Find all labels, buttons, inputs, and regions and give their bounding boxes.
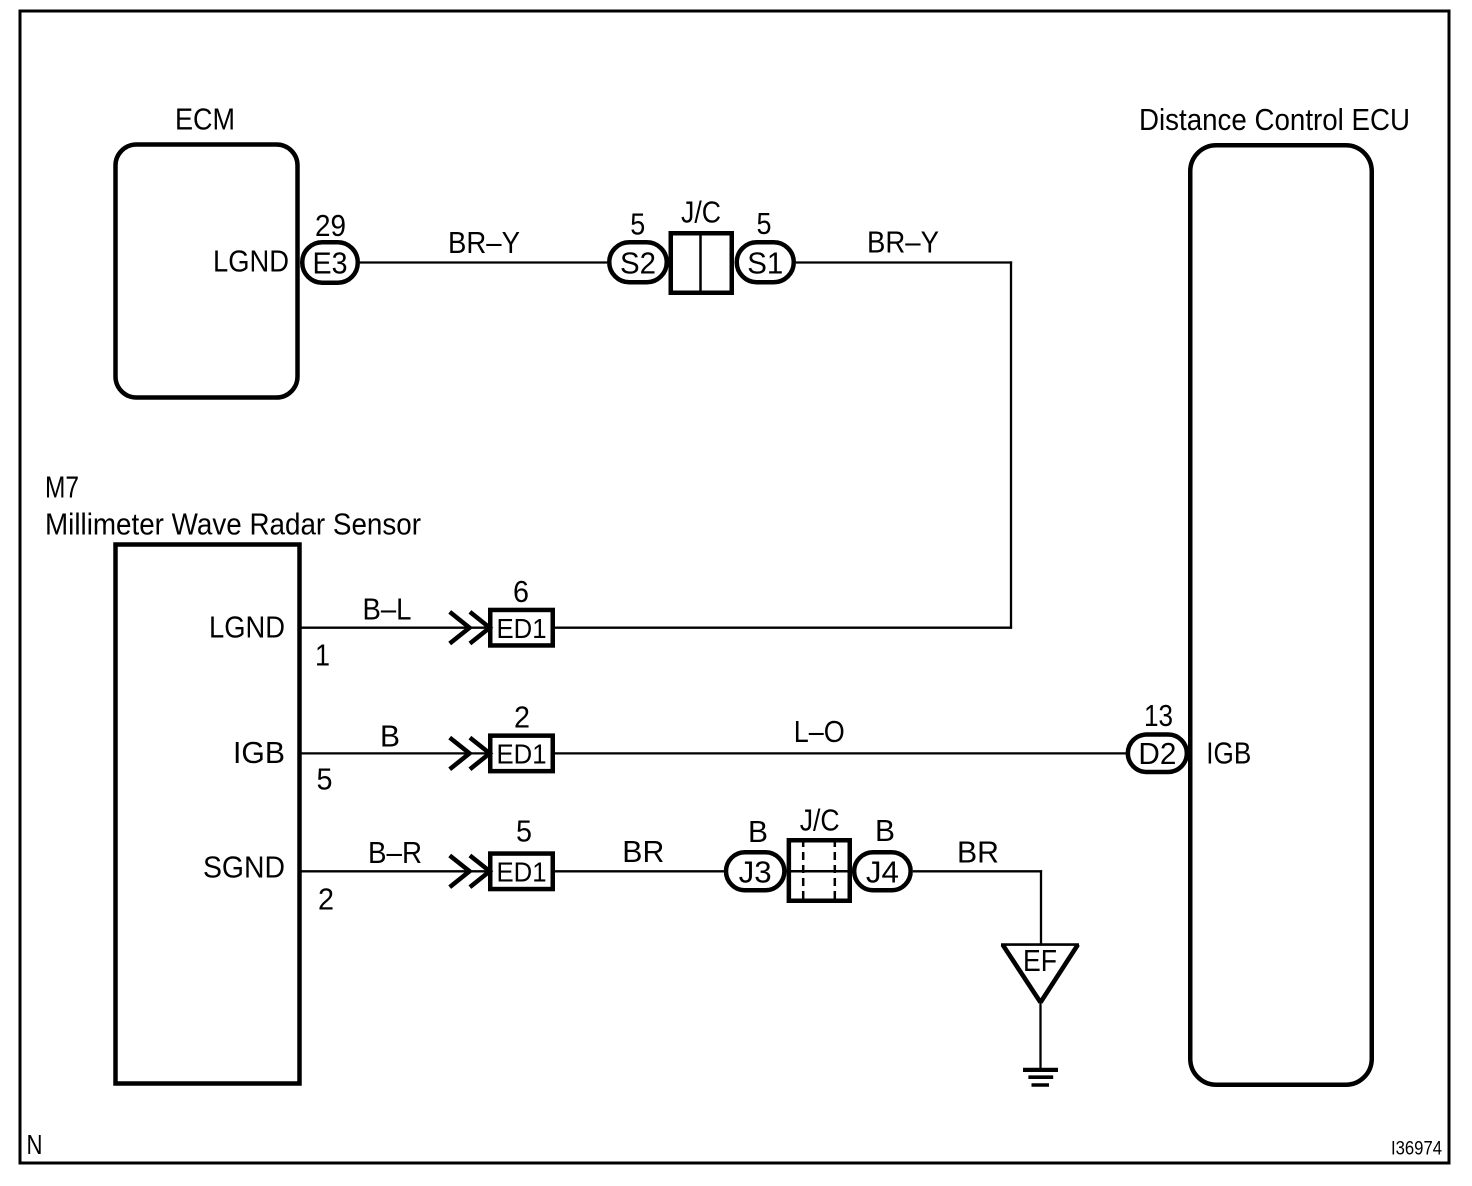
shield ground triangle EF — [1001, 943, 1079, 946]
svg-text:BR: BR — [957, 835, 999, 870]
shield arrows row3 — [450, 856, 470, 888]
ground symbol — [1023, 1068, 1058, 1072]
svg-text:J/C: J/C — [800, 803, 840, 838]
shield arrows row1 — [450, 612, 470, 644]
shield arrows row2 — [450, 738, 470, 770]
svg-text:ED1: ED1 — [497, 856, 547, 887]
svg-text:Distance Control ECU: Distance Control ECU — [1139, 102, 1410, 137]
wire ED1 row3 to J3 — [555, 870, 725, 872]
wire ED1 row1 to vertical — [555, 627, 1012, 629]
svg-text:B–R: B–R — [368, 835, 422, 870]
connector J4 — [854, 852, 911, 890]
J/C row3 dashed bar right — [834, 839, 837, 902]
svg-text:ED1: ED1 — [497, 739, 547, 770]
svg-text:BR–Y: BR–Y — [448, 225, 520, 260]
svg-text:D2: D2 — [1138, 736, 1176, 771]
connector D2 — [1128, 735, 1187, 772]
svg-text:EF: EF — [1023, 943, 1057, 978]
svg-text:2: 2 — [318, 882, 334, 917]
svg-text:IGB: IGB — [233, 735, 285, 770]
svg-text:5: 5 — [757, 206, 772, 241]
svg-text:B: B — [748, 814, 768, 849]
svg-text:29: 29 — [315, 208, 346, 243]
svg-text:B: B — [875, 813, 895, 848]
svg-text:J3: J3 — [739, 854, 772, 889]
connector J3 — [726, 852, 784, 890]
wire vertical drop to LGND row — [1010, 261, 1012, 628]
wire SGND to ED1 — [302, 870, 489, 872]
svg-text:B–L: B–L — [363, 592, 412, 627]
svg-text:ECM: ECM — [175, 102, 235, 137]
svg-text:N: N — [27, 1129, 43, 1160]
junction connector J/C row1 — [671, 233, 732, 293]
svg-text:ED1: ED1 — [497, 613, 547, 644]
svg-text:E3: E3 — [313, 246, 348, 281]
wire LGND to ED1 — [302, 627, 489, 629]
connector S2 — [609, 242, 667, 282]
svg-text:Millimeter Wave Radar Sensor: Millimeter Wave Radar Sensor — [45, 507, 421, 542]
connector S1 — [737, 242, 794, 282]
wire vertical to EF shield — [1040, 870, 1042, 944]
svg-text:13: 13 — [1144, 698, 1173, 733]
svg-text:SGND: SGND — [203, 850, 285, 885]
svg-text:6: 6 — [513, 574, 529, 609]
svg-text:IGB: IGB — [1206, 736, 1251, 771]
svg-text:BR–Y: BR–Y — [867, 225, 939, 260]
wire E3 to S2 — [360, 261, 607, 263]
ground point ED1 row3 — [490, 854, 553, 890]
svg-text:I36974: I36974 — [1391, 1139, 1442, 1160]
svg-text:1: 1 — [315, 638, 330, 673]
ground point ED1 row1 — [490, 610, 553, 646]
svg-text:S2: S2 — [620, 246, 656, 281]
svg-text:J4: J4 — [866, 854, 899, 889]
wire through J/C row3 — [787, 870, 852, 873]
wire J4 to ground drop — [913, 870, 1042, 872]
wire IGB to ED1 — [302, 752, 489, 754]
svg-text:2: 2 — [514, 700, 530, 735]
svg-text:5: 5 — [630, 206, 645, 241]
wire S1 to corner — [796, 261, 1012, 263]
ECM block — [116, 145, 298, 398]
radar sensor M7 block — [116, 545, 300, 1084]
svg-text:B: B — [380, 718, 400, 753]
svg-text:LGND: LGND — [213, 244, 289, 279]
junction connector J/C row1 internal bar — [699, 233, 702, 293]
Distance Control ECU block — [1190, 145, 1372, 1085]
ground point ED1 row2 — [490, 736, 553, 772]
J/C row3 dashed bar left — [802, 839, 805, 902]
wire EF to ground — [1039, 1001, 1041, 1068]
junction connector J/C row3 (dashed) — [789, 840, 850, 901]
svg-text:5: 5 — [317, 762, 333, 797]
svg-text:S1: S1 — [747, 246, 783, 281]
svg-text:LGND: LGND — [209, 610, 285, 645]
svg-text:L–O: L–O — [794, 714, 845, 749]
connector E3 — [302, 242, 358, 283]
svg-text:5: 5 — [516, 814, 532, 849]
svg-text:M7: M7 — [45, 470, 79, 505]
svg-text:BR: BR — [622, 834, 664, 869]
svg-text:J/C: J/C — [681, 195, 721, 230]
wire ED1 row2 to D2 — [555, 752, 1127, 754]
